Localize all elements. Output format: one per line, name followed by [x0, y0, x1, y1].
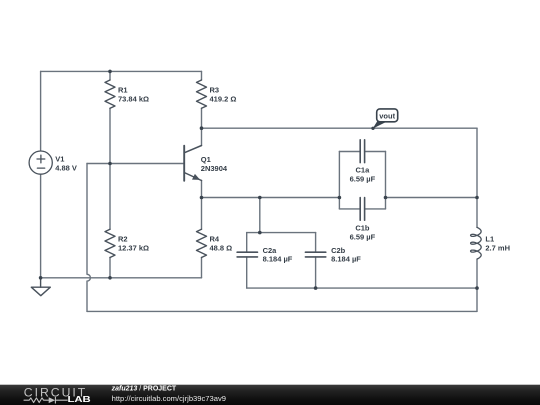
junction C2 box top edge — [258, 231, 262, 235]
logo resistor-diode line — [24, 397, 67, 403]
wire R4 leads — [201, 198, 203, 278]
wire drop to C2 box — [259, 198, 261, 233]
wire right rail lower — [476, 259, 478, 311]
svg-text:48.8 Ω: 48.8 Ω — [210, 243, 233, 252]
junction emitter row / C2 branch — [258, 196, 262, 200]
wire C1 box right edge — [385, 152, 387, 209]
wire C1 right tap row — [386, 197, 478, 199]
svg-text:12.37 kΩ: 12.37 kΩ — [118, 243, 149, 252]
svg-text:R1: R1 — [118, 85, 128, 94]
node vout flag — [371, 109, 397, 130]
junction right rail / L1 top — [475, 196, 479, 200]
svg-text:L1: L1 — [485, 235, 494, 244]
svg-text:8.184 µF: 8.184 µF — [263, 255, 293, 264]
svg-text:6.59 µF: 6.59 µF — [350, 232, 376, 241]
svg-text:R4: R4 — [210, 234, 220, 243]
wire C2b leads — [315, 233, 317, 289]
wire C2a leads — [246, 233, 248, 289]
junction C1 box right tap — [384, 196, 388, 200]
svg-text:C2a: C2a — [263, 246, 278, 255]
junction ground tap — [39, 276, 43, 280]
svg-text:2N3904: 2N3904 — [201, 164, 228, 173]
junction Q1 base / R1 / R2 — [108, 162, 112, 166]
svg-text:R2: R2 — [118, 234, 128, 243]
resistor R3 — [197, 80, 207, 108]
svg-text:Q1: Q1 — [201, 155, 211, 164]
resistor R4 — [197, 229, 207, 257]
svg-text:C2b: C2b — [331, 246, 346, 255]
wire C2 box bottom edge — [247, 287, 316, 289]
junction C2 box bottom right — [314, 286, 318, 290]
wire emitter row — [202, 197, 340, 199]
inductor L1 — [471, 227, 482, 259]
junction R1 top / supply rail — [108, 70, 112, 74]
wire collector/vout row — [202, 127, 478, 129]
wire left rail upper — [40, 71, 42, 151]
wire R2 leads — [109, 164, 111, 278]
resistor R1 — [105, 80, 115, 108]
capacitor C1b — [360, 198, 364, 221]
svg-text:LAB: LAB — [68, 396, 91, 405]
transistor Q1 — [184, 146, 201, 181]
svg-text:C1a: C1a — [356, 166, 371, 175]
wire C2 to L1 bottom row — [316, 287, 477, 289]
wire left rail lower — [40, 174, 42, 278]
svg-text:R3: R3 — [210, 85, 220, 94]
svg-text:419.2 Ω: 419.2 Ω — [210, 94, 237, 103]
svg-text:2.7 mH: 2.7 mH — [485, 244, 510, 253]
wire C2 box top edge — [247, 232, 316, 234]
wire base row — [87, 163, 184, 165]
source V1 — [29, 151, 52, 174]
svg-text:73.84 kΩ: 73.84 kΩ — [118, 94, 149, 103]
svg-text:6.59 µF: 6.59 µF — [350, 175, 376, 184]
svg-text:4.88 V: 4.88 V — [55, 163, 77, 172]
junction R2 bottom — [108, 276, 112, 280]
svg-text:8.184 µF: 8.184 µF — [331, 255, 361, 264]
capacitor C2b — [305, 252, 325, 257]
junction Q1 collector / R3 / vout rail — [200, 126, 204, 130]
wire Q1 emitter stub — [201, 181, 203, 198]
junction C1 box left tap — [338, 196, 342, 200]
junction right rail / L1 bottom — [475, 286, 479, 290]
wire R1 leads — [109, 71, 111, 163]
wire C1a leads — [339, 151, 385, 153]
wire C1 box left edge — [338, 152, 340, 209]
capacitor C2a — [237, 252, 257, 257]
wire base column with hop over ground row — [87, 164, 90, 312]
junction Q1 emitter / R4 — [200, 196, 204, 200]
capacitor C1a — [360, 140, 364, 163]
wire top rail V1 to R3 column — [41, 70, 202, 72]
svg-text:zafu213 / PROJECT: zafu213 / PROJECT — [111, 386, 177, 393]
wire R3 leads — [201, 71, 203, 128]
svg-text:V1: V1 — [55, 154, 64, 163]
resistor R2 — [105, 229, 115, 257]
svg-text:C1b: C1b — [355, 223, 370, 232]
wire Q1 collector stub — [201, 128, 203, 145]
ground — [31, 278, 50, 296]
wire C1b leads — [339, 208, 385, 210]
svg-text:http://circuitlab.com/cjrjb39c: http://circuitlab.com/cjrjb39c73av9 — [112, 394, 226, 403]
wire ground row — [41, 277, 202, 279]
svg-text:vout: vout — [379, 111, 395, 120]
wire right rail upper — [476, 128, 478, 227]
wire bottom rail — [87, 310, 477, 312]
